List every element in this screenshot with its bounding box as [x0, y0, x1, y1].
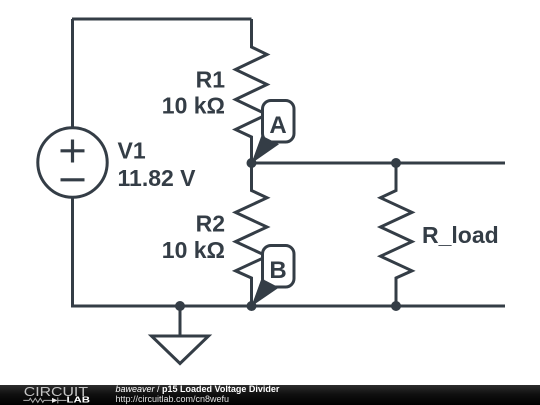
- junction dot ground: [175, 301, 185, 311]
- svg-text:baweaver / p15 Loaded Voltage: baweaver / p15 Loaded Voltage Divider: [116, 384, 280, 394]
- ground: [152, 336, 209, 364]
- wire node A horizontal: [252, 162, 506, 165]
- svg-text:11.82 V: 11.82 V: [118, 165, 197, 191]
- node A junction dot: [247, 158, 257, 168]
- svg-text:10 kΩ: 10 kΩ: [162, 237, 225, 263]
- svg-text:R_load: R_load: [422, 222, 499, 248]
- resistor R1: [236, 19, 268, 163]
- node A label: [251, 101, 294, 164]
- resistor R2: [236, 163, 268, 306]
- svg-text:R1: R1: [196, 67, 226, 93]
- wire ground stub: [179, 306, 182, 336]
- svg-text:B: B: [269, 257, 286, 284]
- junction dot R_load bottom: [391, 301, 401, 311]
- wire top horizontal: [72, 18, 252, 21]
- svg-text:A: A: [269, 112, 286, 139]
- node B junction dot: [247, 301, 257, 311]
- svg-text:R2: R2: [196, 211, 225, 237]
- wire left vertical upper: [71, 19, 74, 128]
- footer bar: [0, 385, 540, 405]
- svg-text:LAB: LAB: [67, 396, 91, 405]
- resistor R_load: [381, 163, 413, 306]
- svg-text:10 kΩ: 10 kΩ: [162, 93, 225, 119]
- wire left vertical lower: [71, 197, 74, 306]
- label V1 value: [118, 67, 499, 263]
- junction dot R_load top: [391, 158, 401, 168]
- svg-text:http://circuitlab.com/cn8wefu: http://circuitlab.com/cn8wefu: [116, 394, 230, 404]
- footer logo resistor-diode symbol: [23, 397, 66, 403]
- voltage source V1: [38, 128, 107, 197]
- svg-text:V1: V1: [118, 138, 146, 164]
- wire bottom horizontal: [71, 305, 505, 308]
- node B label: [251, 246, 294, 307]
